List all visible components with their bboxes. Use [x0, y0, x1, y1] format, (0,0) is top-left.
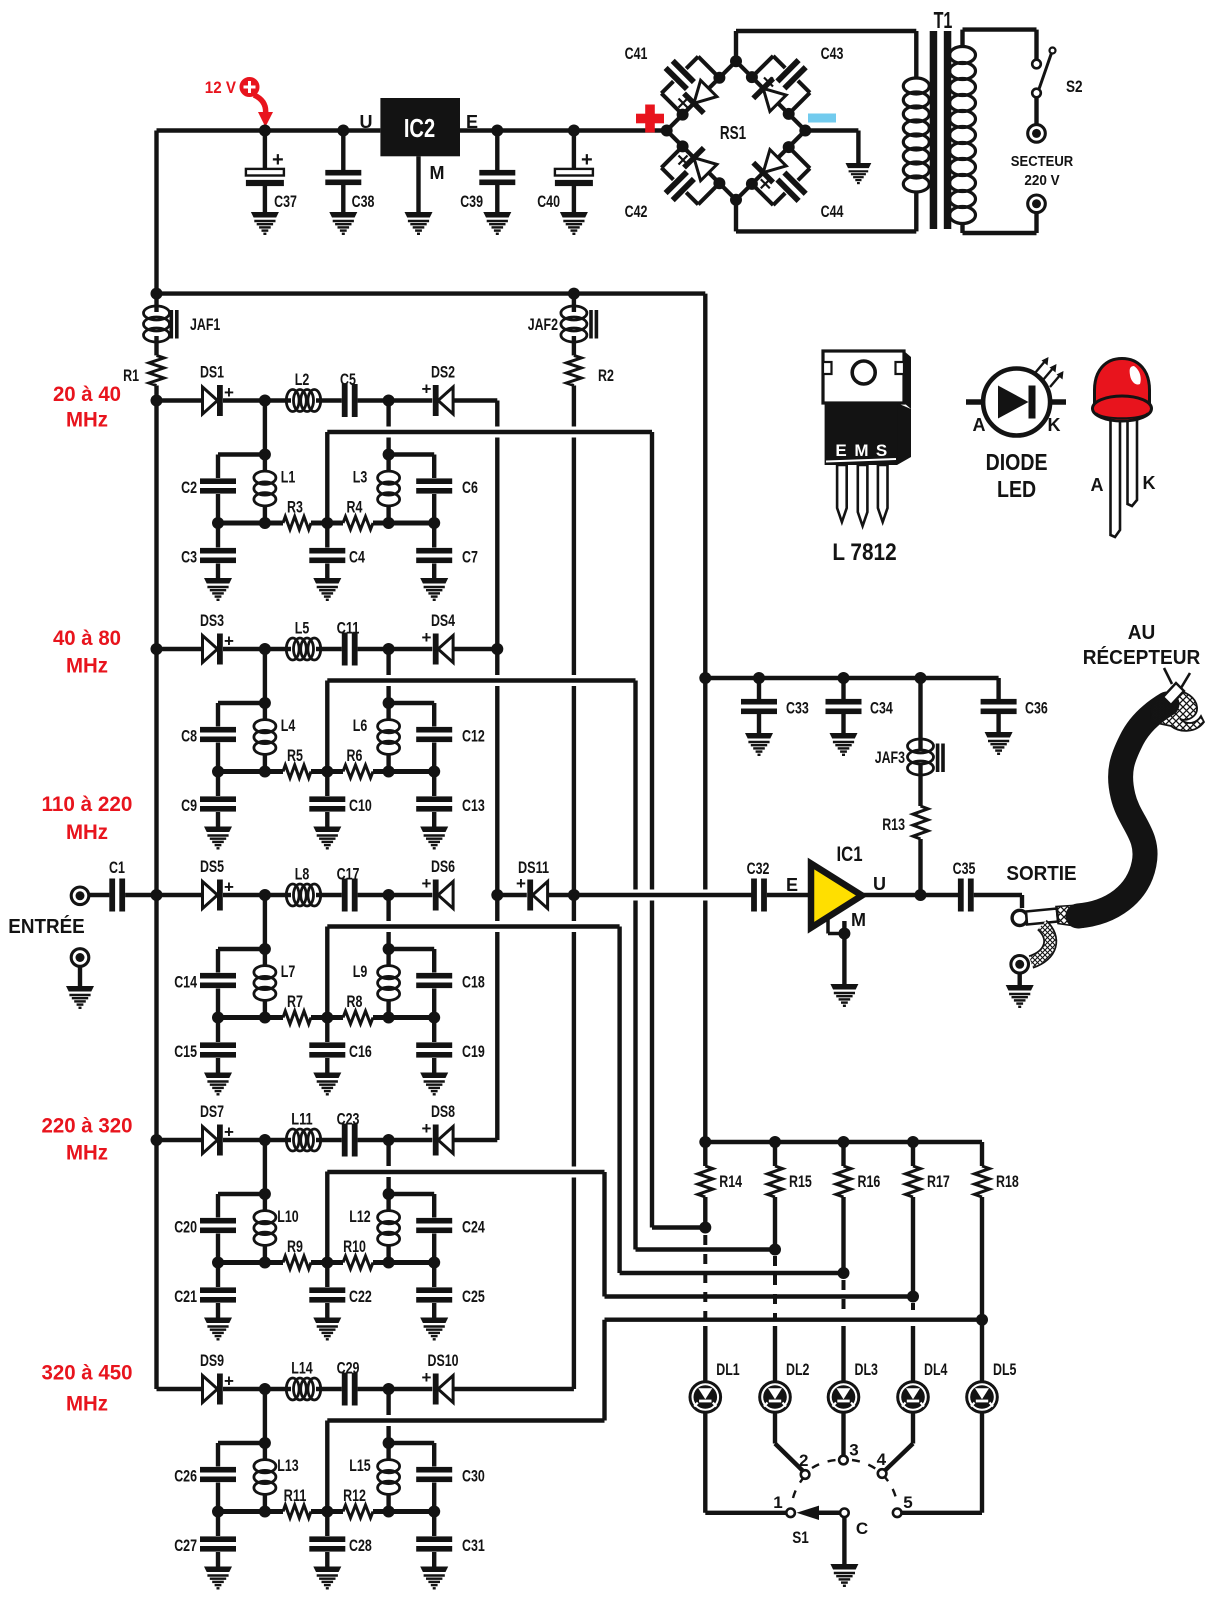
capacitor C23 (series) [342, 1124, 348, 1157]
wire collector vertical x497 (bands 1,2,4) [495, 401, 499, 427]
capacitor C18 [432, 949, 436, 973]
LED DL5 [967, 1382, 998, 1413]
junction bus R17 [907, 1136, 919, 1148]
LED DL1 [690, 1382, 721, 1413]
svg-text:4: 4 [877, 1450, 887, 1469]
wire pi bottom row [218, 1509, 283, 1514]
wire to LED DL2 [773, 1326, 777, 1382]
svg-text:DS8: DS8 [431, 1102, 455, 1121]
capacitor C31 [432, 1512, 436, 1537]
ground under C4 [313, 578, 341, 600]
junction bus R15 [769, 1136, 781, 1148]
wire to DS11 [497, 893, 527, 897]
svg-text:+: + [422, 380, 432, 399]
svg-text:C20: C20 [174, 1218, 197, 1237]
svg-text:C44: C44 [821, 202, 844, 221]
svg-text:MHz: MHz [66, 820, 108, 844]
svg-text:C22: C22 [349, 1287, 372, 1306]
junction pi bottom dots [212, 517, 224, 529]
capacitor C30 [432, 1443, 436, 1467]
svg-text:L8: L8 [295, 865, 310, 884]
junction C34 [838, 672, 850, 684]
wire DS5 to J1 [223, 893, 265, 897]
svg-text:R6: R6 [347, 746, 363, 765]
capacitor C14 [216, 949, 220, 973]
svg-text:R5: R5 [287, 746, 303, 765]
resistor R4 [343, 517, 373, 530]
choke JAF1 [144, 306, 170, 320]
svg-text:E: E [466, 112, 478, 132]
resistor R11 [283, 1505, 311, 1518]
wire pi bottom row [218, 1015, 283, 1020]
junction pi top right [383, 449, 395, 461]
inductor L9 [386, 949, 390, 967]
wire pi top left [218, 701, 265, 705]
wire JAF2 to R2 [572, 294, 576, 312]
svg-text:L7: L7 [281, 962, 296, 981]
junction pi bottom dots [212, 766, 224, 778]
diode DS8 [438, 1127, 453, 1154]
capacitor C39 [495, 131, 499, 172]
svg-text:M: M [854, 441, 868, 460]
svg-text:L 7812: L 7812 [832, 539, 896, 566]
ground under C7 [420, 578, 448, 600]
wire resistor bank bus [705, 1140, 982, 1144]
wire supply vertical x705 [703, 294, 707, 890]
diode DS5 [203, 882, 218, 909]
wire J1 down to pi [263, 895, 267, 949]
svg-text:DL5: DL5 [993, 1360, 1016, 1379]
wire DS9 to J1 [223, 1387, 265, 1391]
svg-text:L2: L2 [295, 370, 310, 389]
wire C17 to J2 [358, 893, 389, 897]
svg-text:R17: R17 [927, 1172, 950, 1191]
junction supply/C33 bus [699, 672, 711, 684]
svg-text:C4: C4 [349, 548, 365, 567]
output connector (RCA plug) [1012, 910, 1027, 925]
svg-text:C3: C3 [181, 548, 197, 567]
LED symbol wire [966, 399, 1066, 405]
regulator IC2 [380, 98, 460, 156]
svg-text:C29: C29 [337, 1359, 360, 1378]
capacitor C4 [325, 523, 329, 548]
inductor L3 [386, 455, 390, 473]
wire J2 down to pi (hops select line) [386, 401, 390, 427]
ground at input [66, 986, 94, 1008]
ground under C36 [985, 732, 1013, 754]
ground under C15 [204, 1073, 232, 1095]
wire J2 to DS10 [389, 1387, 433, 1391]
wire DS3 to J1 [223, 647, 265, 651]
resistor R13 [913, 806, 928, 839]
junction collector band2 [491, 643, 503, 655]
ground under C34 [830, 733, 858, 755]
S1 contact 2 [801, 1470, 810, 1479]
svg-text:S: S [876, 441, 887, 460]
svg-text:C18: C18 [462, 973, 485, 992]
inductor L7 [263, 949, 267, 967]
wire L8 to C17 [316, 893, 342, 897]
svg-text:+: + [581, 149, 593, 171]
svg-text:E: E [835, 441, 846, 460]
dashed LED feed DL2 [773, 1256, 777, 1320]
capacitor C6 [432, 455, 436, 479]
wire input ground [78, 966, 82, 987]
svg-text:+: + [422, 628, 432, 647]
red plus output mark [636, 114, 664, 124]
capacitor C9 [216, 772, 220, 797]
junction J2 [383, 395, 395, 407]
junction IC1 M [838, 928, 850, 940]
junction J1 L1 top feed [259, 395, 271, 407]
svg-text:MHz: MHz [66, 1140, 108, 1164]
wire pi top left [218, 1441, 265, 1445]
diode DS10 [438, 1376, 453, 1403]
junction pi top right [383, 943, 395, 955]
capacitor C15 [216, 1018, 220, 1043]
svg-text:110 à 220: 110 à 220 [42, 792, 133, 816]
svg-text:A: A [1091, 475, 1104, 495]
svg-text:+: + [272, 149, 284, 171]
capacitor C3 [216, 523, 220, 548]
inductor L2 [265, 398, 291, 402]
wire pi top right [389, 947, 435, 951]
svg-text:C39: C39 [460, 192, 483, 211]
svg-text:C31: C31 [462, 1536, 485, 1555]
svg-text:220 à 320: 220 à 320 [42, 1114, 133, 1138]
svg-text:C17: C17 [337, 865, 360, 884]
wire pi top left [218, 452, 265, 456]
choke JAF2 [561, 306, 587, 320]
inductor L11 [265, 1138, 291, 1142]
wire collector vertical x574 (band5) [572, 895, 576, 921]
cable top center conductor [1163, 683, 1184, 705]
svg-text:R2: R2 [598, 366, 614, 385]
S1 dashed arc [793, 1475, 806, 1498]
resistor R14 [698, 1166, 713, 1197]
svg-text:C8: C8 [181, 727, 197, 746]
input ground terminal [71, 949, 89, 967]
junction bus R16 [838, 1136, 850, 1148]
svg-text:S1: S1 [792, 1528, 809, 1547]
svg-text:JAF1: JAF1 [190, 315, 220, 334]
junction pi bottom dots [212, 1257, 224, 1269]
svg-text:DS9: DS9 [200, 1351, 224, 1370]
resistor R2 [566, 355, 581, 385]
junction bus R14 [699, 1136, 711, 1148]
wire left bus down through all bands [154, 401, 158, 1390]
junction bus row DS7 [151, 1134, 163, 1146]
svg-text:C23: C23 [337, 1110, 360, 1129]
wire IC2 M pin to ground [416, 156, 420, 213]
wire DS11 to J4 [548, 893, 574, 897]
12V plus terminal icon [241, 78, 259, 96]
svg-text:+: + [422, 1119, 432, 1138]
bridge rectifier RS1 diamond [667, 61, 806, 200]
svg-text:L15: L15 [349, 1456, 370, 1475]
resistor R17 [906, 1166, 921, 1197]
svg-text:L14: L14 [291, 1359, 313, 1378]
wire to LED DL3 [841, 1326, 845, 1382]
wire S2 to mains terminal [1034, 97, 1038, 124]
junction bus JAF2 [568, 288, 580, 300]
ground under C38 [329, 212, 357, 234]
ground under C25 [420, 1318, 448, 1340]
svg-text:12 V: 12 V [205, 79, 236, 97]
svg-text:L6: L6 [353, 716, 368, 735]
svg-text:MHz: MHz [66, 653, 108, 677]
coax cable to receiver [1078, 704, 1167, 916]
12V red arrow [254, 95, 266, 114]
capacitor C37 (electrolytic) [263, 131, 267, 171]
capacitor C32 [751, 879, 757, 912]
svg-text:+: + [422, 874, 432, 893]
junction R13/output [915, 889, 927, 901]
svg-text:ENTRÉE: ENTRÉE [8, 915, 85, 938]
red LED body [1095, 359, 1150, 404]
capacitor C5 (series) [342, 384, 348, 417]
svg-text:SORTIE: SORTIE [1006, 862, 1076, 885]
junction J1 L10 top feed [259, 1134, 271, 1146]
wire band4 select line [327, 1170, 604, 1174]
wire to LED DL5 [980, 1320, 984, 1382]
svg-text:DS2: DS2 [431, 362, 455, 381]
wire band2 select line [327, 678, 635, 682]
LED symbol arrows [1035, 360, 1046, 373]
capacitor C35 [958, 879, 964, 912]
svg-text:DS10: DS10 [428, 1351, 459, 1370]
svg-text:C35: C35 [953, 859, 976, 878]
mains terminal top [1028, 125, 1046, 143]
capacitor C25 [432, 1263, 436, 1288]
resistor R10 [343, 1256, 373, 1269]
wire J2 to DS2 [389, 398, 433, 402]
svg-text:L9: L9 [353, 962, 368, 981]
capacitor C8 [216, 703, 220, 727]
wire C35 to output connector [974, 893, 1022, 897]
red LED highlight [1130, 366, 1141, 385]
wire R1 to band1 row [154, 386, 158, 401]
diode DS6 [438, 882, 453, 909]
wire J2 to DS6 [389, 893, 433, 897]
LED DL2 [760, 1382, 791, 1413]
wire J2 down to pi (hops select line) [386, 1140, 390, 1166]
wire band output to collector [453, 647, 497, 651]
ground under C27 [204, 1567, 232, 1589]
S1 contact 1 [786, 1509, 795, 1518]
junction J1 L4 top feed [259, 643, 271, 655]
braid to ground terminal [1031, 925, 1050, 962]
resistor R18 [975, 1166, 990, 1197]
diode DS1 [203, 387, 218, 414]
junction C33 [753, 672, 765, 684]
wire pi top right [389, 1192, 435, 1196]
svg-text:L10: L10 [277, 1207, 298, 1226]
svg-text:1: 1 [773, 1493, 782, 1512]
svg-text:C36: C36 [1025, 699, 1048, 718]
wire R16 to select junction [841, 1197, 845, 1273]
svg-text:C33: C33 [786, 699, 809, 718]
wire T1 right coil to switch S2 [960, 30, 964, 48]
svg-text:C42: C42 [625, 202, 648, 221]
wire to LED DL4 [911, 1326, 915, 1382]
inductor L6 [386, 703, 390, 721]
junction J2 [383, 1383, 395, 1395]
capacitor C10 [325, 772, 329, 797]
svg-text:L4: L4 [281, 716, 296, 735]
svg-text:C11: C11 [337, 619, 360, 638]
svg-text:L5: L5 [295, 619, 310, 638]
ground under C39 [483, 212, 511, 234]
svg-text:C16: C16 [349, 1042, 372, 1061]
svg-text:+: + [516, 874, 526, 893]
capacitor C7 [432, 523, 436, 548]
svg-text:40 à 80: 40 à 80 [53, 626, 121, 650]
junction J2 [383, 643, 395, 655]
wire DL2 to S1 pos2 [773, 1412, 777, 1443]
svg-text:DL2: DL2 [786, 1360, 809, 1379]
diode DS7 [203, 1127, 218, 1154]
wire band select stub up [325, 1172, 329, 1263]
svg-text:S2: S2 [1066, 77, 1083, 96]
amplifier IC1 (yellow triangle) [811, 864, 862, 928]
svg-text:C34: C34 [870, 699, 893, 718]
svg-text:R3: R3 [287, 498, 303, 517]
diode DS11 [533, 882, 548, 909]
svg-text:C41: C41 [625, 44, 648, 63]
junction bus left [151, 288, 163, 300]
svg-text:DIODE: DIODE [986, 449, 1048, 475]
wire to LED DL1 [703, 1326, 707, 1382]
svg-text:IC1: IC1 [836, 843, 862, 866]
svg-text:R14: R14 [719, 1172, 742, 1191]
wire band5 select line [327, 1418, 604, 1422]
capacitor C13 [432, 772, 436, 797]
wire R2 down to band3 row (long) [572, 386, 576, 427]
capacitor C36 [996, 678, 1000, 699]
junction select1 to R14 [699, 1222, 711, 1234]
wire R14 to select junction [703, 1197, 707, 1228]
capacitor C20 [216, 1194, 220, 1218]
svg-text:3: 3 [849, 1441, 858, 1460]
svg-text:L3: L3 [353, 468, 368, 487]
svg-text:R11: R11 [284, 1486, 307, 1505]
ground under C37 [251, 212, 279, 234]
junction C39 node [491, 125, 503, 137]
svg-text:C21: C21 [174, 1287, 197, 1306]
junction C38 node [337, 125, 349, 137]
capacitor C33 [757, 678, 761, 699]
junction pi bottom dots [212, 1506, 224, 1518]
transformer T1 core [930, 31, 938, 229]
wire R17 to select junction [911, 1197, 915, 1297]
wire pi top left [218, 1192, 265, 1196]
ground under C10 [313, 827, 341, 849]
svg-text:DS4: DS4 [431, 611, 455, 630]
capacitor C2 [216, 455, 220, 479]
braid at connector [1056, 905, 1083, 927]
ground under C40 [560, 212, 588, 234]
svg-text:R18: R18 [996, 1172, 1019, 1191]
svg-text:A: A [973, 415, 986, 435]
wire band output to collector [453, 1138, 497, 1142]
junction bus row DS3 [151, 643, 163, 655]
svg-text:C25: C25 [462, 1287, 485, 1306]
wire output ground [1018, 973, 1022, 986]
junction JAF3 [915, 672, 927, 684]
wire JAF3 to R13 [918, 763, 922, 806]
svg-text:C30: C30 [462, 1467, 485, 1486]
svg-text:T1: T1 [934, 7, 953, 33]
wire J2 down to pi (hops select line) [386, 895, 390, 921]
svg-text:C27: C27 [174, 1536, 197, 1555]
inductor L12 [386, 1194, 390, 1212]
wire band row left segment [157, 1387, 204, 1391]
wire C33/C34/C36 bus [705, 676, 998, 680]
wire bus to JAF3 [918, 678, 922, 751]
junction J1 L13 top feed [259, 1383, 271, 1395]
wire band select stub up [325, 927, 329, 1018]
wire bridge top to transformer [734, 31, 738, 61]
wire input terminal to C1 [89, 893, 110, 897]
svg-text:320 à 450: 320 à 450 [42, 1360, 133, 1384]
wire C11 to J2 [358, 647, 389, 651]
ground under C22 [313, 1318, 341, 1340]
junction J2 [383, 1134, 395, 1146]
junction select5 to R18 [976, 1314, 988, 1326]
svg-text:JAF3: JAF3 [875, 748, 905, 767]
S1 contact 5 [893, 1509, 902, 1518]
svg-text:C28: C28 [349, 1536, 372, 1555]
capacitor C17 (series) [342, 879, 348, 912]
wire R13 to output row [918, 839, 922, 895]
svg-text:C: C [856, 1519, 868, 1538]
svg-text:R12: R12 [343, 1486, 366, 1505]
svg-text:C43: C43 [821, 44, 844, 63]
resistor R12 [343, 1505, 373, 1518]
junction pi top left [259, 697, 271, 709]
junction 12V node [259, 125, 271, 137]
wire J4 to C32 (hops select verticals) [574, 893, 752, 897]
capacitor C26 [216, 1443, 220, 1467]
wire J2 down to pi (hops select line) [386, 649, 390, 675]
svg-text:C1: C1 [109, 858, 125, 877]
svg-text:M: M [430, 163, 445, 183]
ground under S1 [830, 1564, 858, 1586]
junction C40 node [568, 125, 580, 137]
capacitor C28 [325, 1512, 329, 1537]
wire L14 to C29 [316, 1387, 342, 1391]
resistor R6 [343, 765, 373, 778]
svg-text:R7: R7 [287, 992, 303, 1011]
ground under C33 [745, 733, 773, 755]
resistor R5 [283, 765, 311, 778]
wire C23 to J2 [358, 1138, 389, 1142]
junction pi top right [383, 697, 395, 709]
resistor R9 [283, 1256, 311, 1269]
svg-text:L13: L13 [277, 1456, 298, 1475]
LED symbol diode [998, 386, 1029, 419]
wire DL4 to S1 pos4 [911, 1412, 915, 1443]
LED DL3 [828, 1382, 859, 1413]
wire band select stub up [325, 681, 329, 772]
svg-text:K: K [1048, 415, 1061, 435]
transformer T1 secondary coil (right) [950, 47, 976, 64]
wire J1 down to pi [263, 1389, 267, 1443]
wire J1 down to pi [263, 401, 267, 455]
wire R15 to select junction [773, 1197, 777, 1250]
junction pi bottom dots [212, 1012, 224, 1024]
